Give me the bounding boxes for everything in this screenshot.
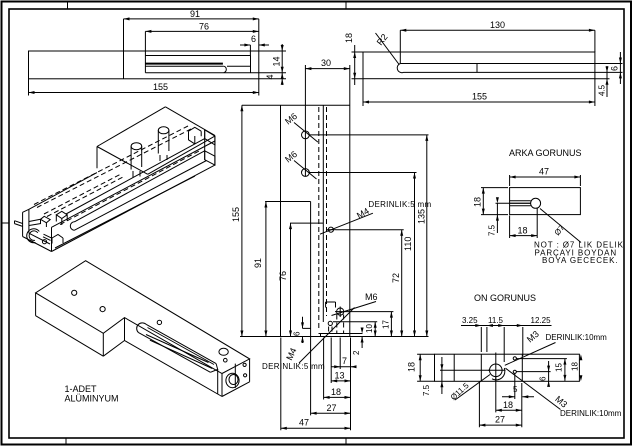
svg-text:76: 76 (199, 22, 209, 32)
dim 110 right (414, 173, 416, 337)
svg-text:72: 72 (391, 273, 401, 283)
dim 18 left (481, 188, 508, 215)
slot center solid line (322, 105, 324, 322)
M4 mid leader (320, 213, 373, 234)
svg-text:18: 18 (344, 33, 354, 43)
internal vertical 3 (521, 354, 523, 381)
step 2mm near bottom right (319, 334, 363, 337)
svg-text:4: 4 (265, 74, 275, 79)
dim 47 (510, 175, 581, 186)
dim 18 (324, 338, 351, 400)
svg-text:3.25: 3.25 (462, 316, 478, 325)
hidden slot line left (dashed) (318, 107, 320, 331)
svg-text:DERINLIK:10mm: DERINLIK:10mm (546, 333, 608, 342)
dim 13 (331, 338, 350, 384)
svg-text:47: 47 (299, 418, 309, 428)
leader diameter 11.5 (455, 375, 490, 401)
leader M3 bottom (506, 368, 561, 409)
column left edge (304, 65, 306, 177)
through hole circle (531, 198, 541, 208)
svg-text:130: 130 (490, 20, 505, 30)
svg-text:6: 6 (251, 34, 256, 44)
dim 155 (363, 79, 595, 106)
vertical near end hole (234, 364, 236, 388)
svg-text:2: 2 (352, 350, 361, 355)
hidden dashed lines along bar (34, 126, 188, 205)
bar end face (205, 151, 215, 165)
slot bottom strip (146, 335, 212, 369)
right ext line to 91/76 dims (258, 19, 260, 51)
M4 bottom leader (299, 308, 355, 364)
top counterbore ellipse (219, 348, 228, 355)
dim 91 (124, 19, 259, 51)
leader diameter 7 (540, 209, 581, 243)
ext 10 (333, 321, 377, 323)
bottom front long edge (52, 165, 215, 251)
step edge vertical (123, 51, 125, 79)
counterbore arc (492, 368, 505, 380)
svg-text:18: 18 (407, 362, 417, 372)
slot edge from block bottom (66, 139, 205, 214)
M6 upper leader (294, 123, 318, 143)
svg-text:7.5: 7.5 (487, 224, 496, 236)
top face outline (36, 261, 250, 374)
protruding pin left (15, 221, 23, 227)
dim 135 right (426, 135, 428, 337)
dim 6 top (240, 45, 269, 56)
dim 7.5 left (440, 357, 489, 394)
svg-text:27: 27 (327, 403, 337, 413)
base back edge vertical (280, 105, 282, 336)
dim 7 (331, 338, 356, 370)
dim 76 (145, 31, 258, 55)
block top right edge (165, 107, 215, 136)
svg-text:DERINLIK:10mm: DERINLIK:10mm (560, 409, 622, 418)
block end face (205, 130, 215, 145)
M6 bottom hole hidden legs (337, 315, 344, 334)
dims 14 and 4 right side (251, 44, 287, 85)
frame zone tick top left (67, 2, 69, 10)
front top long edge (52, 141, 215, 227)
svg-text:ALÜMINYUM: ALÜMINYUM (65, 394, 119, 404)
svg-text:6: 6 (610, 66, 620, 71)
end face small hole 1 (243, 363, 246, 366)
dim 76 left (290, 223, 292, 336)
dim 17 (390, 312, 392, 337)
slot inner line (145, 65, 250, 67)
ext from top M3 to 15 dim (517, 358, 567, 360)
dim 155 bottom (29, 79, 259, 96)
svg-text:1-ADET: 1-ADET (65, 384, 98, 394)
outline rect (510, 188, 581, 215)
bottom secondary edge (55, 176, 195, 248)
part top edge + 155 ext (242, 104, 350, 106)
dim 15 right (564, 359, 566, 381)
cylinder 1 on block (131, 143, 142, 150)
M6 bottom leader (332, 302, 377, 316)
dim 10 (374, 322, 376, 337)
svg-text:11.5: 11.5 (488, 316, 504, 325)
ext line from M4 to 72 dim (336, 229, 404, 231)
svg-text:27: 27 (495, 415, 505, 425)
bottom edge + ext (240, 336, 429, 338)
frame zone tick left mid (2, 222, 10, 224)
dim 5 (502, 374, 534, 400)
svg-text:76: 76 (278, 271, 288, 281)
end cap (23, 209, 52, 251)
big circle (490, 364, 503, 377)
bottom small step 6 (303, 317, 311, 343)
ext line from lower M6 to 110 dim (309, 172, 416, 174)
M6 side hole upper (302, 131, 310, 139)
svg-text:155: 155 (153, 82, 168, 92)
svg-text:6: 6 (539, 376, 548, 381)
svg-text:ARKA GORUNUS: ARKA GORUNUS (509, 148, 582, 158)
slot thick bottom line (145, 63, 223, 65)
side slot bottom line (404, 71, 595, 73)
slot outline (145, 56, 250, 73)
top small hole (224, 358, 228, 362)
svg-text:110: 110 (403, 237, 413, 251)
block left vertical (96, 147, 98, 169)
front left vertical (51, 227, 53, 251)
internal vertical 1 (453, 354, 455, 381)
svg-text:4.5: 4.5 (598, 84, 607, 96)
svg-text:18: 18 (518, 225, 528, 235)
small step near bottom (52, 235, 63, 244)
side slot top line (400, 63, 595, 65)
svg-text:17: 17 (382, 320, 391, 329)
svg-text:ON GORUNUS: ON GORUNUS (474, 293, 536, 303)
dim 18 bottom (510, 208, 538, 239)
svg-text:DERINLIK:5 mm: DERINLIK:5 mm (368, 200, 431, 209)
verticals (36, 293, 250, 397)
block top back edge (97, 107, 165, 147)
slot rounded left end (397, 64, 403, 73)
svg-text:BOYA GECECEK.: BOYA GECECEK. (542, 256, 618, 265)
slot near edge (139, 333, 211, 373)
end verticals (205, 130, 215, 165)
leader M3 top (505, 343, 556, 366)
svg-text:91: 91 (190, 9, 200, 19)
frame zone tick top mid (345, 2, 347, 10)
slot round end arc (224, 66, 226, 72)
block near long edge (148, 136, 215, 174)
svg-text:18: 18 (473, 197, 483, 207)
svg-text:155: 155 (472, 92, 487, 102)
M4 mid hole (328, 227, 333, 232)
svg-text:155: 155 (231, 207, 241, 222)
step outline left (265, 202, 323, 337)
end face small hole 2 (244, 374, 247, 377)
dim 7.5 (496, 203, 531, 233)
dim 30 top (305, 68, 349, 70)
dim 4.5 right (595, 66, 610, 97)
center lines (488, 353, 506, 382)
cylinder 2 on block (158, 127, 169, 134)
dim 27 (311, 337, 351, 416)
step vertical at slot end (217, 369, 219, 394)
M6 lower leader (294, 161, 317, 180)
ext 17 (346, 311, 394, 313)
M3 hole top (513, 357, 516, 360)
svg-text:12.25: 12.25 (531, 316, 552, 325)
dim 91 left (265, 202, 267, 337)
internal vertical 2 (480, 354, 482, 381)
dim 47 (281, 338, 351, 431)
svg-text:91: 91 (253, 258, 263, 268)
slot far edge (146, 324, 216, 363)
M3 hole bottom (513, 370, 516, 373)
dim 72 right (401, 230, 403, 337)
left end small circle (42, 240, 46, 244)
connector lines (29, 219, 41, 225)
svg-text:7.5: 7.5 (422, 384, 431, 396)
hidden slot line right (dashed) (326, 107, 328, 316)
slot left cap (137, 323, 146, 333)
dim 130 (400, 30, 595, 63)
frame zone tick bottom mid (345, 438, 347, 445)
dim 18 left (417, 354, 434, 381)
dim 6 right (548, 361, 550, 386)
svg-text:6: 6 (293, 331, 302, 336)
slot mid divider (476, 64, 478, 73)
back top edge (29, 173, 97, 210)
svg-text:7: 7 (342, 356, 347, 366)
dim 18 bottom (496, 377, 522, 412)
svg-text:13: 13 (335, 371, 345, 381)
svg-text:30: 30 (321, 58, 331, 68)
dim 18 left (352, 45, 364, 85)
svg-text:47: 47 (539, 167, 549, 177)
M6 bottom hole (337, 308, 344, 315)
dim 2 (361, 337, 363, 349)
column right edge (349, 65, 351, 337)
pad hole 1 (72, 290, 77, 295)
svg-text:DERINLIK:5 mm: DERINLIK:5 mm (262, 362, 325, 371)
pad hole 2 (100, 307, 105, 312)
svg-text:10: 10 (365, 324, 374, 333)
groove capsule bottom (75, 161, 207, 231)
leader R2 (376, 33, 400, 65)
left end C-arcs (27, 229, 40, 243)
bottom edges (36, 316, 250, 397)
dim 155 left (241, 105, 243, 336)
frame zone tick bottom left (65, 438, 67, 445)
M6 side hole lower (302, 169, 310, 177)
top dims 3.25 11.5 12.25 (461, 325, 552, 327)
svg-text:5: 5 (513, 385, 518, 394)
groove capsule top (75, 151, 205, 222)
hole side lines (510, 201, 531, 206)
svg-text:14: 14 (272, 56, 282, 66)
svg-text:18: 18 (503, 400, 513, 410)
svg-text:18: 18 (331, 387, 341, 397)
arm small hole (157, 320, 161, 324)
part outline rect (363, 52, 595, 79)
left end detail boss box (56, 211, 67, 225)
part outline rect (29, 51, 259, 79)
ext line from upper M6 to 135 dim (309, 134, 428, 136)
boss outline above M6 hole (326, 302, 336, 308)
outline rect (435, 354, 580, 381)
slot inner depth line (148, 328, 215, 365)
dim 27 bottom (479, 381, 521, 427)
end face big hole (226, 373, 239, 387)
dim 18 right (579, 354, 582, 381)
ext from bottom M3 to 6 dim (517, 371, 551, 373)
svg-text:15: 15 (555, 363, 564, 372)
notch on block top (189, 127, 202, 144)
block top near edge (97, 147, 148, 175)
M4 bottom hole (328, 321, 332, 325)
svg-text:135: 135 (417, 209, 427, 224)
svg-text:M6: M6 (365, 292, 378, 302)
groove capsule left cap (70, 222, 74, 230)
slot right end (210, 364, 217, 373)
svg-text:18: 18 (571, 362, 580, 371)
left end detail small box 1 (41, 216, 51, 227)
left end pin (43, 234, 52, 240)
dim 6 right (595, 52, 623, 84)
